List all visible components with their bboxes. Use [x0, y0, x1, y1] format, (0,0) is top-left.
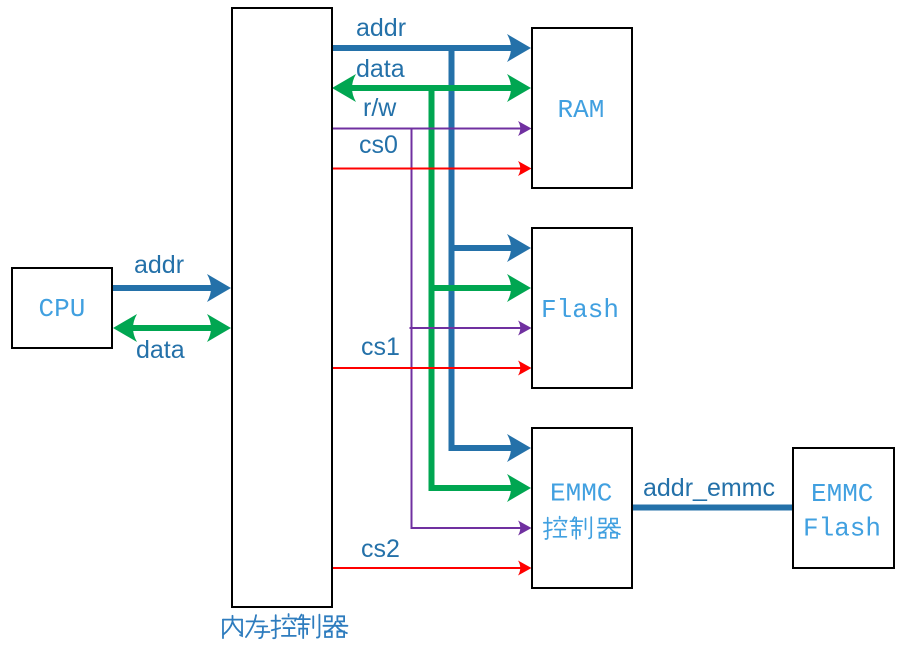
wire cs2 MC to EMMC controller (red)	[332, 567, 521, 569]
wire data branch to Flash (green)	[429, 285, 514, 291]
wire addr_emmc EMMC controller to EMMC Flash (blue)	[632, 505, 793, 511]
Flash box	[532, 228, 632, 388]
arrowhead data into Flash	[507, 274, 531, 302]
svg-text:data: data	[356, 55, 405, 83]
svg-text:RAM: RAM	[558, 95, 605, 125]
arrowhead addr into RAM	[507, 34, 531, 62]
arrowhead r/w into RAM	[518, 121, 532, 136]
arrowhead data into CPU (left)	[113, 314, 137, 342]
svg-text:CPU: CPU	[39, 294, 86, 324]
wire data CPU to MC bidirectional (green)	[131, 325, 211, 331]
arrowhead data into EMMC controller	[507, 474, 531, 502]
RAM box	[532, 28, 632, 188]
wire addr vertical trunk with elbow to EMMC (blue)	[452, 48, 514, 448]
label nei-cun-kong-zhi-qi (memory controller, below MC box)	[223, 614, 347, 638]
arrowhead data into MC (left)	[332, 74, 356, 102]
wire data MC to RAM bidirectional (green)	[350, 85, 513, 91]
wire addr MC to RAM (blue)	[332, 45, 513, 51]
svg-text:EMMC: EMMC	[550, 479, 612, 509]
svg-text:cs1: cs1	[361, 333, 400, 361]
EMMC controller box	[532, 428, 632, 588]
arrowhead cs1 into Flash	[518, 361, 532, 376]
svg-text:cs2: cs2	[361, 535, 400, 563]
svg-text:Flash: Flash	[541, 295, 619, 325]
memory controller box	[232, 8, 332, 607]
wire data vertical trunk with elbow to EMMC (green)	[432, 88, 514, 488]
arrowhead r/w into EMMC controller	[518, 521, 532, 536]
wire cs1 MC to Flash (red)	[332, 367, 521, 369]
arrowhead data into RAM (right)	[507, 74, 531, 102]
arrowhead addr into Flash	[507, 234, 531, 262]
arrowhead addr into MC	[207, 274, 231, 302]
arrowhead cs2 into EMMC controller	[518, 561, 532, 576]
wire r/w vertical trunk with elbow to EMMC (purple)	[412, 129, 522, 529]
svg-text:addr: addr	[134, 251, 184, 279]
CPU box	[12, 268, 112, 348]
arrowhead addr into EMMC controller	[507, 434, 531, 462]
arrowhead r/w into Flash	[518, 321, 532, 336]
svg-text:addr_emmc: addr_emmc	[643, 474, 775, 502]
svg-text:EMMC: EMMC	[811, 479, 873, 509]
svg-text:cs0: cs0	[359, 131, 398, 159]
wire addr branch to Flash (blue)	[449, 245, 514, 251]
svg-text:addr: addr	[356, 14, 406, 42]
arrowhead cs0 into RAM	[518, 161, 532, 176]
wire cs0 MC to RAM (red)	[332, 168, 521, 170]
wire r/w branch to Flash (purple)	[410, 327, 522, 329]
svg-text:Flash: Flash	[803, 514, 881, 544]
arrowhead data into MC (right)	[207, 314, 231, 342]
svg-text:r/w: r/w	[363, 94, 397, 122]
label kong-zhi-qi (controller, inside EMMC box)	[544, 517, 620, 539]
svg-text:data: data	[136, 336, 185, 364]
EMMC Flash box	[793, 448, 894, 568]
wire addr CPU to MC (blue)	[112, 285, 213, 291]
wire r/w MC to RAM (purple)	[332, 128, 521, 130]
